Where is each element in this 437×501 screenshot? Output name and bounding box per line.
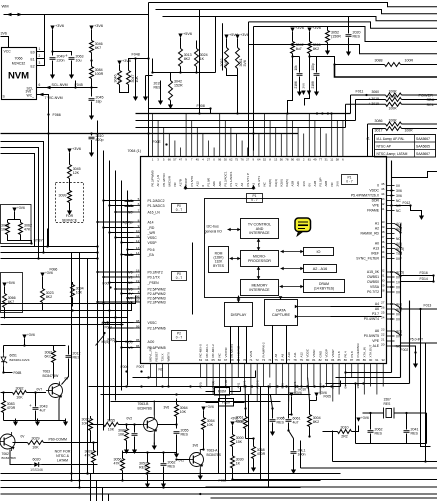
- svg-text:47K: 47K: [24, 228, 31, 232]
- pin bottom 19: [312, 348, 316, 386]
- wire 3023 down: [42, 305, 44, 311]
- svg-text:90: 90: [369, 358, 373, 362]
- svg-text:3060: 3060: [372, 90, 380, 94]
- pin 40 A1 right: [375, 220, 402, 226]
- svg-text:CAPTURE: CAPTURE: [272, 313, 291, 317]
- pin 26 A6 right: [375, 306, 402, 312]
- pin top 9: [195, 128, 199, 187]
- net 3V6 q4: [193, 444, 199, 448]
- pin top 29: [307, 114, 311, 187]
- svg-text:FOR: FOR: [66, 214, 74, 218]
- svg-text:A12: A12: [299, 352, 303, 358]
- wire bus line4: [249, 22, 437, 28]
- wire bottom long 3: [1, 487, 301, 489]
- wire d gnd: [299, 77, 301, 91]
- junction 3024: [195, 71, 197, 73]
- wire bl conn 1: [122, 480, 124, 482]
- svg-text:A15_0K: A15_0K: [367, 270, 380, 274]
- svg-text:10K: 10K: [1, 228, 8, 232]
- wire drop to 3004: [308, 378, 310, 401]
- svg-text:+5V6: +5V6: [7, 281, 15, 285]
- svg-text:VDDP: VDDP: [184, 178, 188, 186]
- svg-text:SERVICE: SERVICE: [62, 219, 78, 223]
- wire 5v6a: [180, 38, 182, 47]
- svg-text:F00E: F00E: [153, 140, 162, 144]
- wire gnd145: [145, 76, 147, 94]
- svg-text:SCL-NVM: SCL-NVM: [52, 83, 68, 87]
- wire pin feed: [104, 322, 134, 324]
- capacitor 2063 10u: [65, 53, 84, 63]
- wire E2: [37, 52, 45, 66]
- wire service supply: [69, 153, 71, 165]
- net F005: [324, 395, 332, 399]
- wire bottom long 1: [1, 473, 341, 475]
- svg-text:CWBS0: CWBS0: [367, 280, 379, 284]
- pin bottom 4: [218, 352, 222, 401]
- wire 3083 down: [3, 415, 5, 421]
- pin bottom 26: [356, 343, 360, 388]
- svg-text:79: 79: [300, 358, 304, 362]
- svg-text:62: 62: [229, 157, 233, 161]
- junction bottom bus: [296, 385, 298, 387]
- capacitor 2080: [132, 434, 138, 436]
- svg-text:44: 44: [381, 192, 385, 196]
- transistor 7063 BC847BW: [43, 370, 63, 400]
- svg-text:CUEDIN/3: CUEDIN/3: [356, 343, 360, 357]
- resistor 3062 47K: [19, 220, 33, 237]
- junction 3080: [125, 423, 127, 425]
- wire q1 supply: [24, 339, 26, 346]
- pin top 17: [240, 141, 244, 187]
- wire nest a drop: [47, 229, 49, 247]
- svg-text:70: 70: [243, 358, 247, 362]
- part 2019 RES: [154, 82, 162, 86]
- wire bottom exit 2: [301, 467, 437, 469]
- capacitor 2020 RES: [346, 31, 361, 39]
- supply +3V6 br2: [314, 391, 327, 397]
- pin bottom 7: [236, 345, 240, 388]
- wire f022 supply: [232, 426, 234, 435]
- pin 34 IREF right: [371, 250, 402, 256]
- refdes 7066: [15, 57, 23, 61]
- svg-text:E0: E0: [31, 51, 35, 55]
- resistor 3084 100R: [90, 64, 104, 81]
- resistor 3099: [59, 188, 72, 205]
- svg-text:F3.8: F3.8: [337, 351, 341, 357]
- pin 41 FRAME right: [367, 207, 401, 213]
- net WM label: [2, 4, 9, 9]
- svg-text:78: 78: [293, 358, 297, 362]
- svg-text:A6: A6: [375, 329, 379, 333]
- svg-text:470R: 470R: [7, 406, 16, 410]
- resistor 3028 47K: [85, 448, 96, 465]
- wire 2043 down: [35, 411, 37, 421]
- pin 99 P2.1/PWM6: [134, 324, 166, 330]
- pin top 25: [285, 114, 289, 187]
- svg-text:SDA: SDA: [427, 98, 435, 102]
- svg-text:82: 82: [319, 358, 323, 362]
- pin 35 A13 right: [373, 245, 404, 251]
- pin top 33: [330, 114, 334, 187]
- svg-text:K2(4): K2(4): [274, 179, 278, 186]
- svg-text:E2: E2: [31, 65, 35, 69]
- net F002 left: [102, 322, 110, 326]
- svg-text:470R: 470R: [236, 420, 245, 424]
- svg-text:VDDC: VDDC: [369, 189, 379, 193]
- resistor 3066 6K7: [3, 291, 16, 310]
- junction bus dot: [189, 385, 191, 387]
- wire dc feed 2: [331, 316, 382, 318]
- wire supply to cap: [52, 30, 54, 56]
- svg-text:BYTES: BYTES: [213, 264, 225, 268]
- bus DATA CAPTURE up: [279, 296, 283, 299]
- junction bus dot: [399, 275, 401, 277]
- pin 31 CWBS1 right: [367, 274, 401, 280]
- svg-text:32: 32: [381, 269, 385, 273]
- pin bottom 2: [205, 344, 209, 387]
- junction bus dot: [231, 478, 233, 480]
- block MEMORY INTERFACE: [241, 280, 279, 296]
- junction bus dot: [399, 251, 401, 253]
- part 2186 rot: [294, 81, 298, 88]
- svg-text:RES: RES: [277, 421, 285, 425]
- junction 3094: [71, 309, 73, 311]
- svg-text:100R: 100R: [95, 72, 104, 76]
- pin top 3: [162, 128, 166, 187]
- svg-text:45: 45: [196, 157, 200, 161]
- wire left bus x121: [121, 181, 123, 391]
- wire stair v3: [215, 17, 217, 73]
- wire E0: [37, 15, 45, 52]
- wire right v b: [433, 276, 435, 282]
- net FD16: [420, 271, 428, 275]
- supply +3V6 c: [235, 33, 249, 39]
- net K3(5): [108, 338, 116, 342]
- svg-text:10K: 10K: [32, 446, 39, 450]
- capacitor 2062 RES br: [368, 428, 383, 436]
- ground 3052: [325, 48, 330, 56]
- ground F012: [419, 213, 424, 221]
- wire bottom bus 2: [89, 386, 341, 388]
- wire bottom bus 3: [101, 394, 311, 396]
- wire left mid 2: [1, 252, 98, 254]
- svg-text:30: 30: [381, 279, 385, 283]
- resistor 3054 10K: [202, 415, 215, 432]
- svg-text:BC847BW: BC847BW: [43, 374, 60, 378]
- wire 3057 up: [147, 453, 149, 461]
- svg-text:RES: RES: [411, 432, 419, 436]
- ground below 2063: [69, 72, 74, 80]
- capacitor 2043 4u7: [29, 403, 48, 413]
- wire gnd145 top: [146, 75, 153, 77]
- junction bus dot: [390, 189, 392, 191]
- junction SCL: [74, 86, 76, 88]
- resistor 3042b 6K7: [291, 39, 304, 56]
- svg-text:P0.4/INT4: P0.4/INT4: [364, 317, 379, 321]
- pin 7 A16_LN: [128, 208, 161, 214]
- junction pin feed: [96, 271, 98, 273]
- svg-text:1K: 1K: [200, 57, 205, 61]
- wire br loop up: [355, 413, 357, 444]
- svg-text:P2.4/PWM2: P2.4/PWM2: [148, 292, 166, 296]
- wire 3062 down: [20, 237, 22, 241]
- svg-text:3V6: 3V6: [193, 444, 199, 448]
- resistor 3056 47K: [114, 456, 125, 473]
- junction bus dot: [399, 307, 401, 309]
- wire 3086 exit: [402, 123, 437, 125]
- wire rbus v400: [400, 224, 402, 378]
- wire 3055 right: [119, 424, 142, 426]
- svg-text:PROCESSOR: PROCESSOR: [248, 259, 271, 263]
- svg-text:P5.4/PWM7/T26.X: P5.4/PWM7/T26.X: [351, 194, 380, 198]
- wire pin feed: [116, 211, 134, 213]
- svg-text:220n: 220n: [57, 59, 65, 63]
- svg-text:_EA: _EA: [147, 253, 155, 257]
- bus TV CONTROL to MICRO: [257, 239, 261, 251]
- net FD14: [420, 277, 428, 281]
- svg-text:RAM0K_RD: RAM0K_RD: [361, 232, 380, 236]
- pin 2 P2.5/PWM2: [127, 285, 166, 291]
- svg-text:29: 29: [381, 284, 385, 288]
- wire corner v 249: [248, 22, 250, 157]
- net F007: [137, 365, 145, 369]
- svg-text:6K7: 6K7: [45, 355, 51, 359]
- wire 3064 to q3: [158, 424, 177, 426]
- junction pin feed: [120, 346, 122, 348]
- bus entry diagonal: [395, 244, 401, 248]
- refdes 3019a: [369, 97, 380, 101]
- svg-text:XTA_IN: XTA_IN: [362, 347, 366, 357]
- net 2V6 rot: [302, 83, 306, 89]
- svg-text:FD16: FD16: [420, 271, 428, 275]
- text 0V lbl: [65, 377, 70, 381]
- ground F002 right: [413, 361, 418, 369]
- wire 7063 emitter: [58, 399, 60, 421]
- svg-text:A0B: A0B: [324, 181, 328, 187]
- bus MEMORY to DISPLAY: [237, 296, 241, 303]
- part 2188 rot: [311, 81, 315, 88]
- wire display stub 2: [238, 327, 240, 364]
- pin bottom 10: [255, 358, 259, 402]
- svg-text:P1.5/T0: P1.5/T0: [190, 176, 194, 187]
- ground service: [67, 208, 72, 216]
- wire 3061 up: [245, 409, 247, 415]
- wire rail72 drop: [152, 59, 154, 73]
- wire f02m a right: [230, 391, 241, 393]
- wire 2020 drop: [348, 17, 350, 34]
- wire 2063 to SCL: [75, 81, 77, 88]
- resistor 3094 10K: [71, 282, 84, 300]
- wire f02m b left: [206, 402, 219, 404]
- svg-text:100R: 100R: [388, 95, 397, 99]
- wire stair v2: [199, 10, 201, 114]
- port box P1 0-7 right: [342, 175, 358, 185]
- resistor 3016 10K: [1, 220, 10, 237]
- ground q3: [152, 443, 157, 451]
- refdes 6051: [10, 354, 18, 358]
- junction F006: [125, 370, 127, 372]
- svg-text:K2(5): K2(5): [285, 179, 289, 186]
- supply +3V6 ml2: [40, 271, 53, 277]
- svg-text:3: 3: [39, 61, 41, 65]
- transistor 7062 BC847BW: [0, 432, 16, 460]
- subcircuit ml box: [1, 273, 23, 313]
- svg-text:72: 72: [256, 358, 260, 362]
- junction cap top: [51, 50, 53, 52]
- svg-text:DISPLAY: DISPLAY: [231, 313, 247, 317]
- svg-text:NC: NC: [396, 199, 401, 203]
- junction bus dot: [390, 194, 392, 196]
- svg-text:F013: F013: [424, 304, 432, 308]
- junction top bus: [327, 112, 329, 114]
- svg-text:64: 64: [205, 358, 209, 362]
- junction pin feed: [108, 281, 110, 283]
- pin top 35: [342, 121, 344, 162]
- net +5V6 br: [231, 417, 239, 421]
- pin bottom 12: [268, 358, 272, 389]
- junction pin feed: [102, 226, 104, 228]
- wire 3024 up: [196, 41, 198, 47]
- wire 3068 up: [253, 439, 255, 445]
- svg-text:8: 8: [138, 218, 140, 222]
- pin top 15: [229, 128, 233, 187]
- svg-text:VSSP: VSSP: [331, 349, 335, 357]
- svg-text:MOVL_RD: MOVL_RD: [149, 346, 153, 361]
- svg-text:1SS346: 1SS346: [30, 468, 43, 472]
- wire cap 2063 down: [71, 61, 73, 74]
- wire 3082 right: [27, 392, 47, 394]
- wire pin feed: [122, 293, 134, 295]
- svg-text:INTERFACE: INTERFACE: [249, 231, 270, 235]
- junction F002 left: [106, 321, 108, 323]
- wire d down: [288, 56, 293, 114]
- wire 2010 down: [91, 140, 93, 152]
- svg-text:75: 75: [235, 157, 239, 161]
- svg-text:41: 41: [381, 207, 385, 211]
- svg-text:XTA.OUT: XTA.OUT: [369, 345, 373, 358]
- svg-text:75: 75: [274, 358, 278, 362]
- wire r pair join: [120, 87, 129, 93]
- wire top bus 2: [136, 120, 356, 122]
- bus entry diagonal: [395, 304, 401, 308]
- junction bus dot: [390, 271, 392, 273]
- junction bus dot: [399, 226, 401, 228]
- junction F00E: [165, 143, 167, 145]
- svg-text:2188: 2188: [311, 81, 315, 88]
- wire cap e link: [310, 56, 317, 58]
- svg-text:63: 63: [199, 358, 203, 362]
- bus entry diagonal: [395, 309, 401, 313]
- pin top 23: [274, 128, 278, 187]
- pin 98 VSSC: [134, 319, 158, 325]
- wire cap d link: [293, 56, 300, 58]
- svg-text:81: 81: [308, 157, 312, 161]
- transistor 7063-A BC847BS: [179, 449, 222, 469]
- wire right step: [392, 172, 437, 178]
- wire 3082 left: [1, 392, 13, 394]
- svg-text:+3V6: +3V6: [361, 416, 369, 420]
- pin bottom 29: [375, 358, 379, 395]
- wire bus drop c: [340, 381, 342, 387]
- svg-text:18p: 18p: [96, 100, 102, 104]
- junction bus dot: [147, 132, 149, 134]
- net F045: [75, 83, 83, 87]
- wire pin feed: [110, 232, 134, 234]
- junction bus dot: [140, 385, 142, 387]
- pin top 26: [291, 121, 295, 187]
- wire 2045 down: [91, 102, 93, 115]
- wire e gnd: [316, 77, 318, 91]
- wire 2012 up: [68, 346, 70, 355]
- pin 3 P2.4/PWM2: [128, 290, 165, 296]
- junction bus dot: [294, 385, 296, 387]
- subcircuit standby box: [1, 205, 32, 244]
- svg-text:+3V6: +3V6: [122, 59, 131, 63]
- text NTSC amp: [56, 454, 70, 458]
- wire bottom exit 1: [333, 461, 437, 463]
- net F048: [132, 53, 140, 57]
- svg-text:LATAM: LATAM: [57, 459, 68, 463]
- svg-text:6051: 6051: [10, 354, 18, 358]
- wire pin feed: [116, 288, 134, 290]
- pin S: [3, 95, 6, 99]
- wire rbus v409: [409, 301, 411, 384]
- svg-text:100R: 100R: [388, 107, 397, 111]
- ground row c: [63, 419, 68, 427]
- svg-text:BC847BW: BC847BW: [2, 456, 17, 460]
- wire power bend: [350, 95, 352, 114]
- svg-text:85: 85: [337, 358, 341, 362]
- ground 2045: [89, 113, 94, 121]
- value 100R d: [388, 107, 397, 111]
- wire q3 emitter: [153, 434, 155, 445]
- pin 96 P2.6/PWM5: [127, 344, 166, 350]
- wire r3084 down: [91, 81, 93, 97]
- wire ml bus1: [1, 296, 136, 304]
- svg-text:87: 87: [350, 358, 354, 362]
- annotation yellow note: [295, 218, 311, 236]
- wire 3081 up: [53, 346, 55, 349]
- svg-text:+3V6: +3V6: [55, 24, 64, 28]
- table chip variants: [375, 135, 436, 158]
- pin 21 VPE right: [372, 338, 394, 344]
- pin top 10: [201, 134, 205, 187]
- underline pin group a: [125, 202, 134, 207]
- wire FD14: [401, 281, 434, 283]
- junction bus dot: [244, 385, 246, 387]
- wire mid1 down: [119, 65, 121, 71]
- ground 2080: [132, 447, 137, 455]
- svg-text:P1.1/ADC1: P1.1/ADC1: [229, 171, 233, 186]
- svg-text:10k: 10k: [294, 65, 298, 71]
- resistor 3086 100R: [386, 122, 402, 126]
- svg-text:P3.2/ADC1: P3.2/ADC1: [223, 171, 227, 186]
- svg-text:0V: 0V: [344, 385, 348, 389]
- wire 3042 top link: [153, 72, 216, 74]
- supply +5V6 a: [178, 32, 192, 38]
- pin 24 P0.4/INT4 right: [364, 316, 401, 322]
- svg-text:P2.2/PWM3: P2.2/PWM3: [148, 300, 166, 304]
- net 3V6 left edge: [1, 32, 7, 36]
- svg-text:13: 13: [136, 246, 140, 250]
- block DISPLAY: [225, 303, 253, 327]
- svg-text:RESET: RESET: [155, 351, 159, 361]
- svg-text:2186: 2186: [294, 81, 298, 88]
- pin bottom extra WBITX: [167, 352, 171, 387]
- capacitor 2186: [297, 74, 303, 76]
- refdes 7064 (1): [128, 149, 141, 153]
- subcircuit FOR SERVICE box: [56, 183, 84, 223]
